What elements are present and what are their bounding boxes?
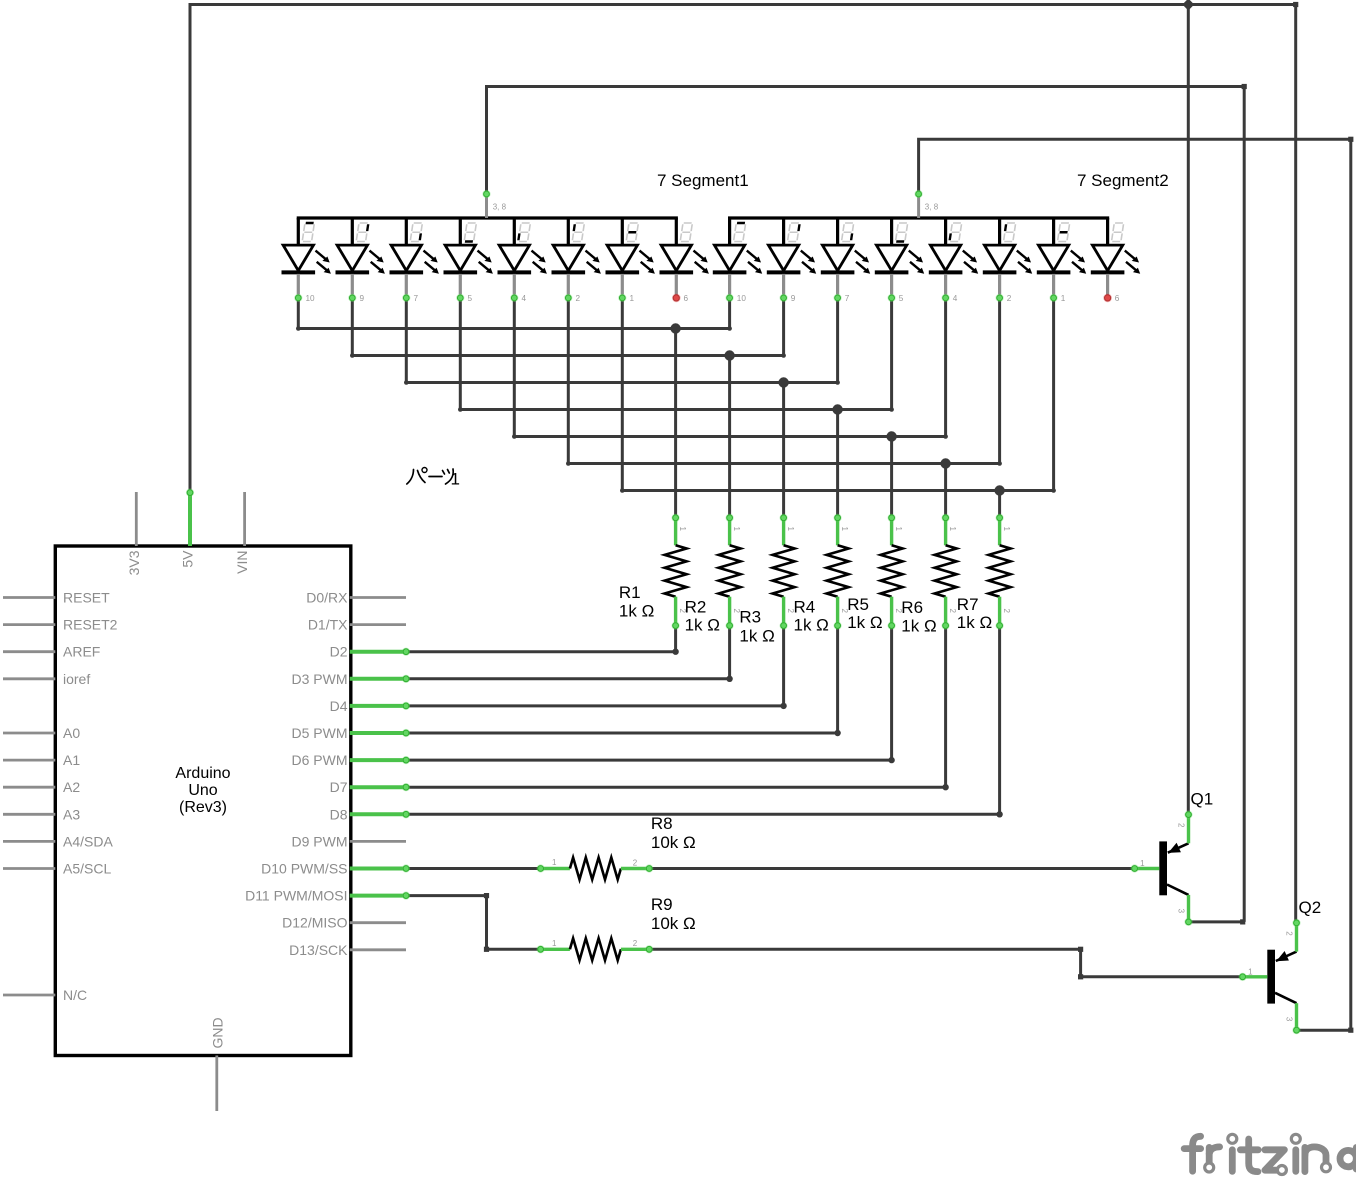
7 Segment2 common pin 3,8 <box>919 196 939 218</box>
svg-text:D9 PWM: D9 PWM <box>292 833 348 849</box>
svg-text:R4: R4 <box>794 598 816 617</box>
svg-text:(Rev3): (Rev3) <box>179 799 227 816</box>
svg-text:10k Ω: 10k Ω <box>651 914 696 933</box>
junction R9 output corner lower <box>1078 974 1083 979</box>
resistor R3 1k ohm <box>739 514 795 646</box>
svg-text:2: 2 <box>1002 609 1011 614</box>
7 Segment1 common pin 3,8 <box>487 196 507 218</box>
wire 5V net drop to Q1 collector <box>1187 5 1190 815</box>
svg-text:7 Segment2: 7 Segment2 <box>1077 171 1169 190</box>
junction R3 wire corner <box>780 703 786 709</box>
junction corner Seg1 common riser <box>1242 84 1247 89</box>
Arduino pin D3 PWM <box>292 671 411 687</box>
junction R1 wire corner <box>672 649 678 655</box>
svg-text:A1: A1 <box>63 752 80 768</box>
junction net 1 at R1 <box>670 323 680 333</box>
svg-text:1: 1 <box>1140 859 1145 868</box>
svg-text:R6: R6 <box>901 598 923 617</box>
wire segment net 1 down to resistor R1 <box>674 329 677 518</box>
7 Segment1 LED element pin 7 (segment C) <box>390 218 439 295</box>
Arduino pin AREF <box>3 644 100 660</box>
resistor R4 1k ohm <box>794 514 850 635</box>
pin dot 7Seg2 common <box>915 190 923 198</box>
7 Segment1 LED element pin 1 (segment G) <box>606 218 655 295</box>
svg-text:R7: R7 <box>957 595 979 614</box>
resistor R2 1k ohm <box>685 514 742 635</box>
transistor Q2 <box>1239 898 1322 1034</box>
svg-text:2: 2 <box>633 939 638 948</box>
svg-text:7 Segment1: 7 Segment1 <box>657 171 749 190</box>
svg-text:1: 1 <box>552 858 557 867</box>
svg-text:D7: D7 <box>330 779 348 795</box>
Arduino pin D5 PWM <box>292 725 411 741</box>
junction R7 wire corner <box>996 811 1002 817</box>
resistor R7 1k ohm <box>957 514 1011 632</box>
Arduino pin D1/TX <box>308 617 406 633</box>
svg-text:1k Ω: 1k Ω <box>739 626 774 645</box>
wire segment net 6: 7Seg1 pin 2 to 7Seg2 pin 2 <box>568 298 999 464</box>
wire segment net 6 down to resistor R6 <box>944 464 947 518</box>
svg-text:1: 1 <box>630 294 635 303</box>
svg-text:1k Ω: 1k Ω <box>619 602 654 621</box>
7 Segment2 LED element pin 9 (segment B) <box>767 218 816 295</box>
svg-text:1: 1 <box>894 527 903 532</box>
Arduino pin GND <box>209 1017 225 1111</box>
junction corner top right <box>1293 2 1298 7</box>
svg-text:D5 PWM: D5 PWM <box>292 725 348 741</box>
wire R6 to Arduino D7 <box>406 626 946 788</box>
svg-text:D13/SCK: D13/SCK <box>289 942 348 958</box>
svg-text:R1: R1 <box>619 583 641 602</box>
svg-text:10k Ω: 10k Ω <box>651 833 696 852</box>
Arduino pin A1 <box>3 752 80 768</box>
transistor Q1 <box>1131 790 1214 927</box>
wire 5V net drop to Q2 collector <box>1294 5 1297 923</box>
wire R3 to Arduino D4 <box>406 626 784 706</box>
svg-text:N/C: N/C <box>63 987 87 1003</box>
junction R6 wire corner <box>942 784 948 790</box>
resistor R1 1k ohm <box>619 514 687 630</box>
junction R5 wire corner <box>888 757 894 763</box>
svg-text:7: 7 <box>845 294 850 303</box>
svg-text:Arduino: Arduino <box>175 765 230 782</box>
svg-text:6: 6 <box>684 294 689 303</box>
svg-text:1: 1 <box>1002 527 1011 532</box>
Arduino pin A3 <box>3 806 80 822</box>
svg-text:3: 3 <box>1176 909 1185 914</box>
Arduino pin D13/SCK <box>289 942 406 958</box>
7 Segment2 LED element pin 7 (segment C) <box>821 218 870 295</box>
7 Segment2 LED element pin 4 (segment E) <box>929 218 978 295</box>
wire segment net 7 down to resistor R7 <box>998 491 1001 518</box>
label parts1 (katakana) <box>407 468 453 485</box>
wire segment net 5: 7Seg1 pin 4 to 7Seg2 pin 4 <box>514 298 945 437</box>
wire R9 to Q2 base <box>649 949 1242 977</box>
7 Segment2 LED element pin 2 (segment F) <box>983 218 1032 295</box>
svg-text:1k Ω: 1k Ω <box>794 616 829 635</box>
svg-text:1: 1 <box>840 527 849 532</box>
svg-text:3, 8: 3, 8 <box>493 203 507 212</box>
svg-text:D12/MISO: D12/MISO <box>282 915 347 931</box>
Arduino pin D10 PWM/SS <box>261 861 410 877</box>
svg-text:Q1: Q1 <box>1191 790 1214 809</box>
junction R4 wire corner <box>834 730 840 736</box>
7 Segment2 anode bus <box>728 216 1109 219</box>
svg-text:RESET2: RESET2 <box>63 617 118 633</box>
svg-text:A2: A2 <box>63 779 80 795</box>
svg-text:2: 2 <box>1007 294 1012 303</box>
resistor R8 10k ohm <box>537 814 696 880</box>
junction Q2 emitter riser corner <box>1348 1028 1353 1033</box>
svg-text:1: 1 <box>1061 294 1066 303</box>
Arduino pin D8 <box>330 806 411 822</box>
wire segment net 4 down to resistor R4 <box>836 410 839 518</box>
Arduino pin A4/SDA <box>3 833 113 849</box>
Arduino pin RESET2 <box>3 617 118 633</box>
wire segment net 1: 7Seg1 pin 10 to 7Seg2 pin 10 <box>298 298 729 329</box>
svg-text:2: 2 <box>1284 931 1293 936</box>
fritzing logo <box>1184 1136 1356 1171</box>
wire R8 to Q1 base <box>649 867 1134 870</box>
Arduino pin D6 PWM <box>292 752 411 768</box>
svg-text:D0/RX: D0/RX <box>306 590 348 606</box>
7 Segment2 LED element pin 10 (segment A) <box>713 218 762 295</box>
Arduino pin RESET <box>3 590 110 606</box>
junction net 2 at R2 <box>724 350 734 360</box>
svg-text:Uno: Uno <box>188 782 217 799</box>
svg-text:Q2: Q2 <box>1299 898 1322 917</box>
svg-text:R5: R5 <box>847 595 869 614</box>
wire 5V net: Arduino 5V up and across top <box>190 5 1296 493</box>
svg-text:R8: R8 <box>651 814 673 833</box>
wire 7Segment1 common (3,8) to Q1 emitter net <box>487 87 1245 922</box>
svg-text:1k Ω: 1k Ω <box>847 613 882 632</box>
junction 5V net at top <box>1182 0 1194 11</box>
svg-text:D2: D2 <box>330 644 348 660</box>
pin dot 7Seg1 common <box>482 190 490 198</box>
resistor R5 1k ohm <box>847 514 903 632</box>
7-segment display 7 Segment2 <box>713 171 1169 295</box>
svg-text:1k Ω: 1k Ω <box>901 616 936 635</box>
Arduino pin D2 <box>330 644 411 660</box>
Arduino pin A0 <box>3 725 80 741</box>
Arduino pin A5/SCL <box>3 861 111 877</box>
Arduino pin D9 PWM <box>292 833 407 849</box>
svg-text:9: 9 <box>360 294 365 303</box>
svg-text:1: 1 <box>678 527 687 532</box>
wire R2 to Arduino D3 <box>406 626 730 679</box>
junction net 7 at R7 <box>994 485 1004 495</box>
svg-text:5: 5 <box>468 294 473 303</box>
svg-text:A3: A3 <box>63 806 80 822</box>
wire segment net 3 down to resistor R3 <box>782 383 785 518</box>
svg-text:ioref: ioref <box>63 671 90 687</box>
svg-text:3, 8: 3, 8 <box>925 203 939 212</box>
wire 7Segment2 common (3,8) to Q2 emitter net <box>919 139 1351 1030</box>
svg-text:AREF: AREF <box>63 644 100 660</box>
7 Segment1 LED element pin 4 (segment E) <box>498 218 547 295</box>
svg-text:VIN: VIN <box>234 551 250 574</box>
svg-text:R9: R9 <box>651 895 673 914</box>
7 Segment2 LED element pin 5 (segment D) <box>875 218 924 295</box>
svg-text:D10 PWM/SS: D10 PWM/SS <box>261 861 347 877</box>
Arduino Uno (Rev3) <box>3 489 410 1112</box>
7 Segment2 LED element pin 1 (segment G) <box>1037 218 1086 295</box>
Arduino pin A2 <box>3 779 80 795</box>
junction R9 output corner upper <box>1078 947 1083 952</box>
Arduino pin D12/MISO <box>282 915 406 931</box>
junction Q1 emitter riser corner <box>1240 919 1245 924</box>
svg-text:2: 2 <box>576 294 581 303</box>
Arduino pin ioref <box>3 671 90 687</box>
junction corner Seg2 common riser <box>1348 137 1353 142</box>
svg-text:4: 4 <box>953 294 958 303</box>
svg-text:D4: D4 <box>330 698 348 714</box>
junction net 6 at R6 <box>940 458 950 468</box>
svg-text:3: 3 <box>1284 1017 1293 1022</box>
svg-text:1: 1 <box>732 527 741 532</box>
svg-text:A5/SCL: A5/SCL <box>63 861 111 877</box>
svg-text:A0: A0 <box>63 725 80 741</box>
wire segment net 3: 7Seg1 pin 7 to 7Seg2 pin 7 <box>406 298 837 383</box>
junction D11 wire corner lower <box>484 947 489 952</box>
svg-text:GND: GND <box>209 1017 225 1048</box>
svg-text:10: 10 <box>737 294 747 303</box>
resistor R6 1k ohm <box>901 514 957 636</box>
7 Segment1 LED element pin 9 (segment B) <box>336 218 385 295</box>
svg-text:1: 1 <box>552 939 557 948</box>
svg-text:D11 PWM/MOSI: D11 PWM/MOSI <box>245 888 347 904</box>
wire R5 to Arduino D6 <box>406 626 892 761</box>
7 Segment1 LED element pin 6 (segment DP) <box>660 218 709 295</box>
Arduino pin 3V3 <box>126 492 142 575</box>
7 Segment1 LED element pin 10 (segment A) <box>282 218 331 295</box>
wire segment net 2: 7Seg1 pin 9 to 7Seg2 pin 9 <box>352 298 783 356</box>
Arduino pin D11 PWM/MOSI <box>245 888 410 904</box>
svg-text:10: 10 <box>306 294 316 303</box>
wire Arduino D10 to R8 <box>406 867 541 870</box>
svg-text:RESET: RESET <box>63 590 110 606</box>
junction R2 wire corner <box>726 676 732 682</box>
svg-text:5V: 5V <box>180 550 196 568</box>
wire segment net 7: 7Seg1 pin 1 to 7Seg2 pin 1 <box>622 298 1053 491</box>
svg-text:R3: R3 <box>739 607 761 626</box>
svg-text:2: 2 <box>633 858 638 867</box>
svg-text:1: 1 <box>948 527 957 532</box>
Arduino pin VIN <box>234 492 250 574</box>
Arduino pin N/C <box>3 987 87 1003</box>
wire segment net 2 down to resistor R2 <box>728 356 731 518</box>
wire Arduino D11 to R9 <box>406 896 541 950</box>
wire Q2 emitter to vertical riser <box>1297 1029 1351 1032</box>
svg-text:4: 4 <box>522 294 527 303</box>
wire R4 to Arduino D5 <box>406 626 838 733</box>
svg-text:3V3: 3V3 <box>126 550 142 575</box>
7 Segment1 LED element pin 2 (segment F) <box>552 218 601 295</box>
junction D11 wire corner upper <box>484 893 489 898</box>
svg-text:R2: R2 <box>685 598 707 617</box>
wire segment net 4: 7Seg1 pin 5 to 7Seg2 pin 5 <box>460 298 891 410</box>
svg-text:D6 PWM: D6 PWM <box>292 752 348 768</box>
svg-text:9: 9 <box>791 294 796 303</box>
svg-text:2: 2 <box>1176 823 1185 828</box>
7-segment display 7 Segment1 <box>282 171 749 295</box>
svg-text:6: 6 <box>1115 294 1120 303</box>
wire Q1 emitter to vertical riser <box>1189 920 1245 923</box>
Arduino pin 5V <box>180 489 196 568</box>
svg-text:2: 2 <box>948 609 957 614</box>
Arduino pin D0/RX <box>306 590 406 606</box>
junction net 3 at R3 <box>778 377 788 387</box>
svg-text:D3 PWM: D3 PWM <box>292 671 348 687</box>
svg-text:1: 1 <box>786 527 795 532</box>
wire segment net 5 down to resistor R5 <box>890 437 893 518</box>
wire R7 to Arduino D8 <box>406 626 1000 815</box>
7 Segment1 anode bus <box>297 216 678 219</box>
svg-text:A4/SDA: A4/SDA <box>63 833 113 849</box>
Arduino pin D7 <box>330 779 411 795</box>
7 Segment1 LED element pin 5 (segment D) <box>444 218 493 295</box>
svg-text:5: 5 <box>899 294 904 303</box>
svg-text:1: 1 <box>451 470 460 489</box>
svg-text:1: 1 <box>1248 967 1253 976</box>
resistor R9 10k ohm <box>537 895 696 961</box>
svg-text:1k Ω: 1k Ω <box>685 616 720 635</box>
svg-text:7: 7 <box>414 294 419 303</box>
junction net 5 at R5 <box>886 431 896 441</box>
wire R1 to Arduino D2 <box>406 626 676 652</box>
junction net 4 at R4 <box>832 404 842 414</box>
svg-text:1k Ω: 1k Ω <box>957 613 992 632</box>
svg-text:D1/TX: D1/TX <box>308 617 348 633</box>
svg-text:D8: D8 <box>330 806 348 822</box>
Arduino pin D4 <box>330 698 411 714</box>
7 Segment2 LED element pin 6 (segment DP) <box>1091 218 1140 295</box>
